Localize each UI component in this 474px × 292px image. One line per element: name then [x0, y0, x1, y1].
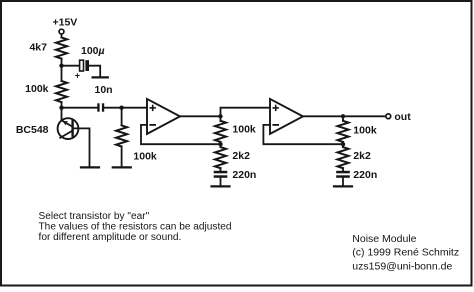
svg-text:uzs159@uni-bonn.de: uzs159@uni-bonn.de	[352, 260, 452, 272]
wire node B to C 10n	[62, 107, 98, 109]
svg-text:+: +	[75, 70, 80, 80]
node G junction	[341, 142, 345, 146]
transistor Q1 BC548	[58, 118, 79, 139]
out terminal	[386, 114, 391, 119]
capacitor 220n fb2	[336, 171, 350, 178]
wire U1 output	[180, 115, 221, 117]
wire 4k7 to node A	[61, 59, 63, 81]
capacitor 100u electrolytic	[80, 60, 89, 71]
svg-text:for different amplitude or sou: for different amplitude or sound.	[39, 232, 182, 243]
wire U2 inverting input feedback	[263, 125, 343, 144]
wire node F to R 100k fb2	[342, 116, 344, 121]
resistor 100k upper	[56, 81, 67, 102]
wire Q1 base to ground	[73, 128, 90, 166]
svg-text:BC548: BC548	[16, 124, 49, 136]
ground (Q1 base)	[81, 166, 99, 168]
wire node C to R 100k mid	[121, 108, 123, 126]
svg-text:100k: 100k	[232, 124, 256, 136]
op-amp U2	[270, 99, 303, 134]
title block text	[352, 233, 459, 272]
svg-text:out: out	[394, 111, 411, 123]
node C junction	[119, 106, 123, 110]
wire C 100u to ground	[89, 66, 100, 77]
node F junction	[341, 114, 345, 118]
wire to node G	[342, 142, 344, 147]
svg-text:(c) 1999 René Schmitz: (c) 1999 René Schmitz	[352, 247, 459, 259]
wire terminal to R 4k7	[61, 34, 63, 37]
ground (100u)	[93, 76, 108, 78]
wire node A to C 100u	[62, 65, 80, 67]
note text	[39, 211, 232, 243]
svg-text:2k2: 2k2	[353, 150, 371, 162]
capacitor 10n	[97, 103, 104, 111]
svg-text:100k: 100k	[133, 151, 157, 163]
svg-text:100µ: 100µ	[81, 45, 105, 57]
node E junction	[218, 142, 222, 146]
wire node D to R 100k fb1	[220, 116, 222, 121]
svg-text:100k: 100k	[25, 83, 49, 95]
svg-text:2k2: 2k2	[232, 150, 250, 162]
resistor 100k fb2	[338, 121, 349, 142]
resistor 2k2 fb2	[338, 147, 349, 168]
capacitor 220n fb1	[214, 171, 228, 178]
svg-text:100k: 100k	[353, 125, 377, 137]
wire node B to Q1 emitter	[61, 108, 63, 121]
wire C 10n to node C and U1 + input	[104, 107, 147, 109]
wire 2k2 fb2 to C 220n fb2	[342, 168, 344, 171]
ground (fb2)	[334, 185, 352, 187]
wire 2k2 fb1 to C 220n fb1	[220, 168, 222, 171]
svg-text:Noise Module: Noise Module	[352, 233, 416, 245]
node A junction	[59, 63, 63, 67]
wire C 220n fb1 to ground	[220, 178, 222, 186]
resistor 100k mid	[116, 125, 127, 146]
ground (100k mid)	[113, 166, 131, 168]
svg-text:Select transistor by "ear": Select transistor by "ear"	[39, 211, 150, 222]
svg-text:220n: 220n	[232, 169, 256, 181]
resistor 100k fb1	[215, 121, 226, 142]
wire node D to U2 + input	[221, 108, 270, 117]
wire U2 output to out	[303, 115, 386, 117]
svg-text:220n: 220n	[353, 169, 377, 181]
wire to node E	[220, 142, 222, 147]
wire U1 inverting input feedback	[141, 125, 221, 144]
svg-text:4k7: 4k7	[29, 42, 47, 54]
resistor 4k7	[56, 38, 67, 59]
svg-text:+15V: +15V	[53, 17, 78, 29]
wire 100k to node B	[61, 102, 63, 108]
op-amp U1	[147, 99, 180, 134]
wire C 220n fb2 to ground	[342, 178, 344, 186]
node B junction	[59, 106, 63, 110]
svg-text:The values of the resistors ca: The values of the resistors can be adjus…	[39, 222, 232, 233]
svg-text:10n: 10n	[95, 84, 113, 96]
+15V supply terminal	[59, 29, 64, 34]
ground (fb1)	[212, 185, 230, 187]
node D junction	[218, 114, 222, 118]
wire 100k mid to ground	[121, 147, 123, 167]
resistor 2k2 fb1	[215, 147, 226, 168]
